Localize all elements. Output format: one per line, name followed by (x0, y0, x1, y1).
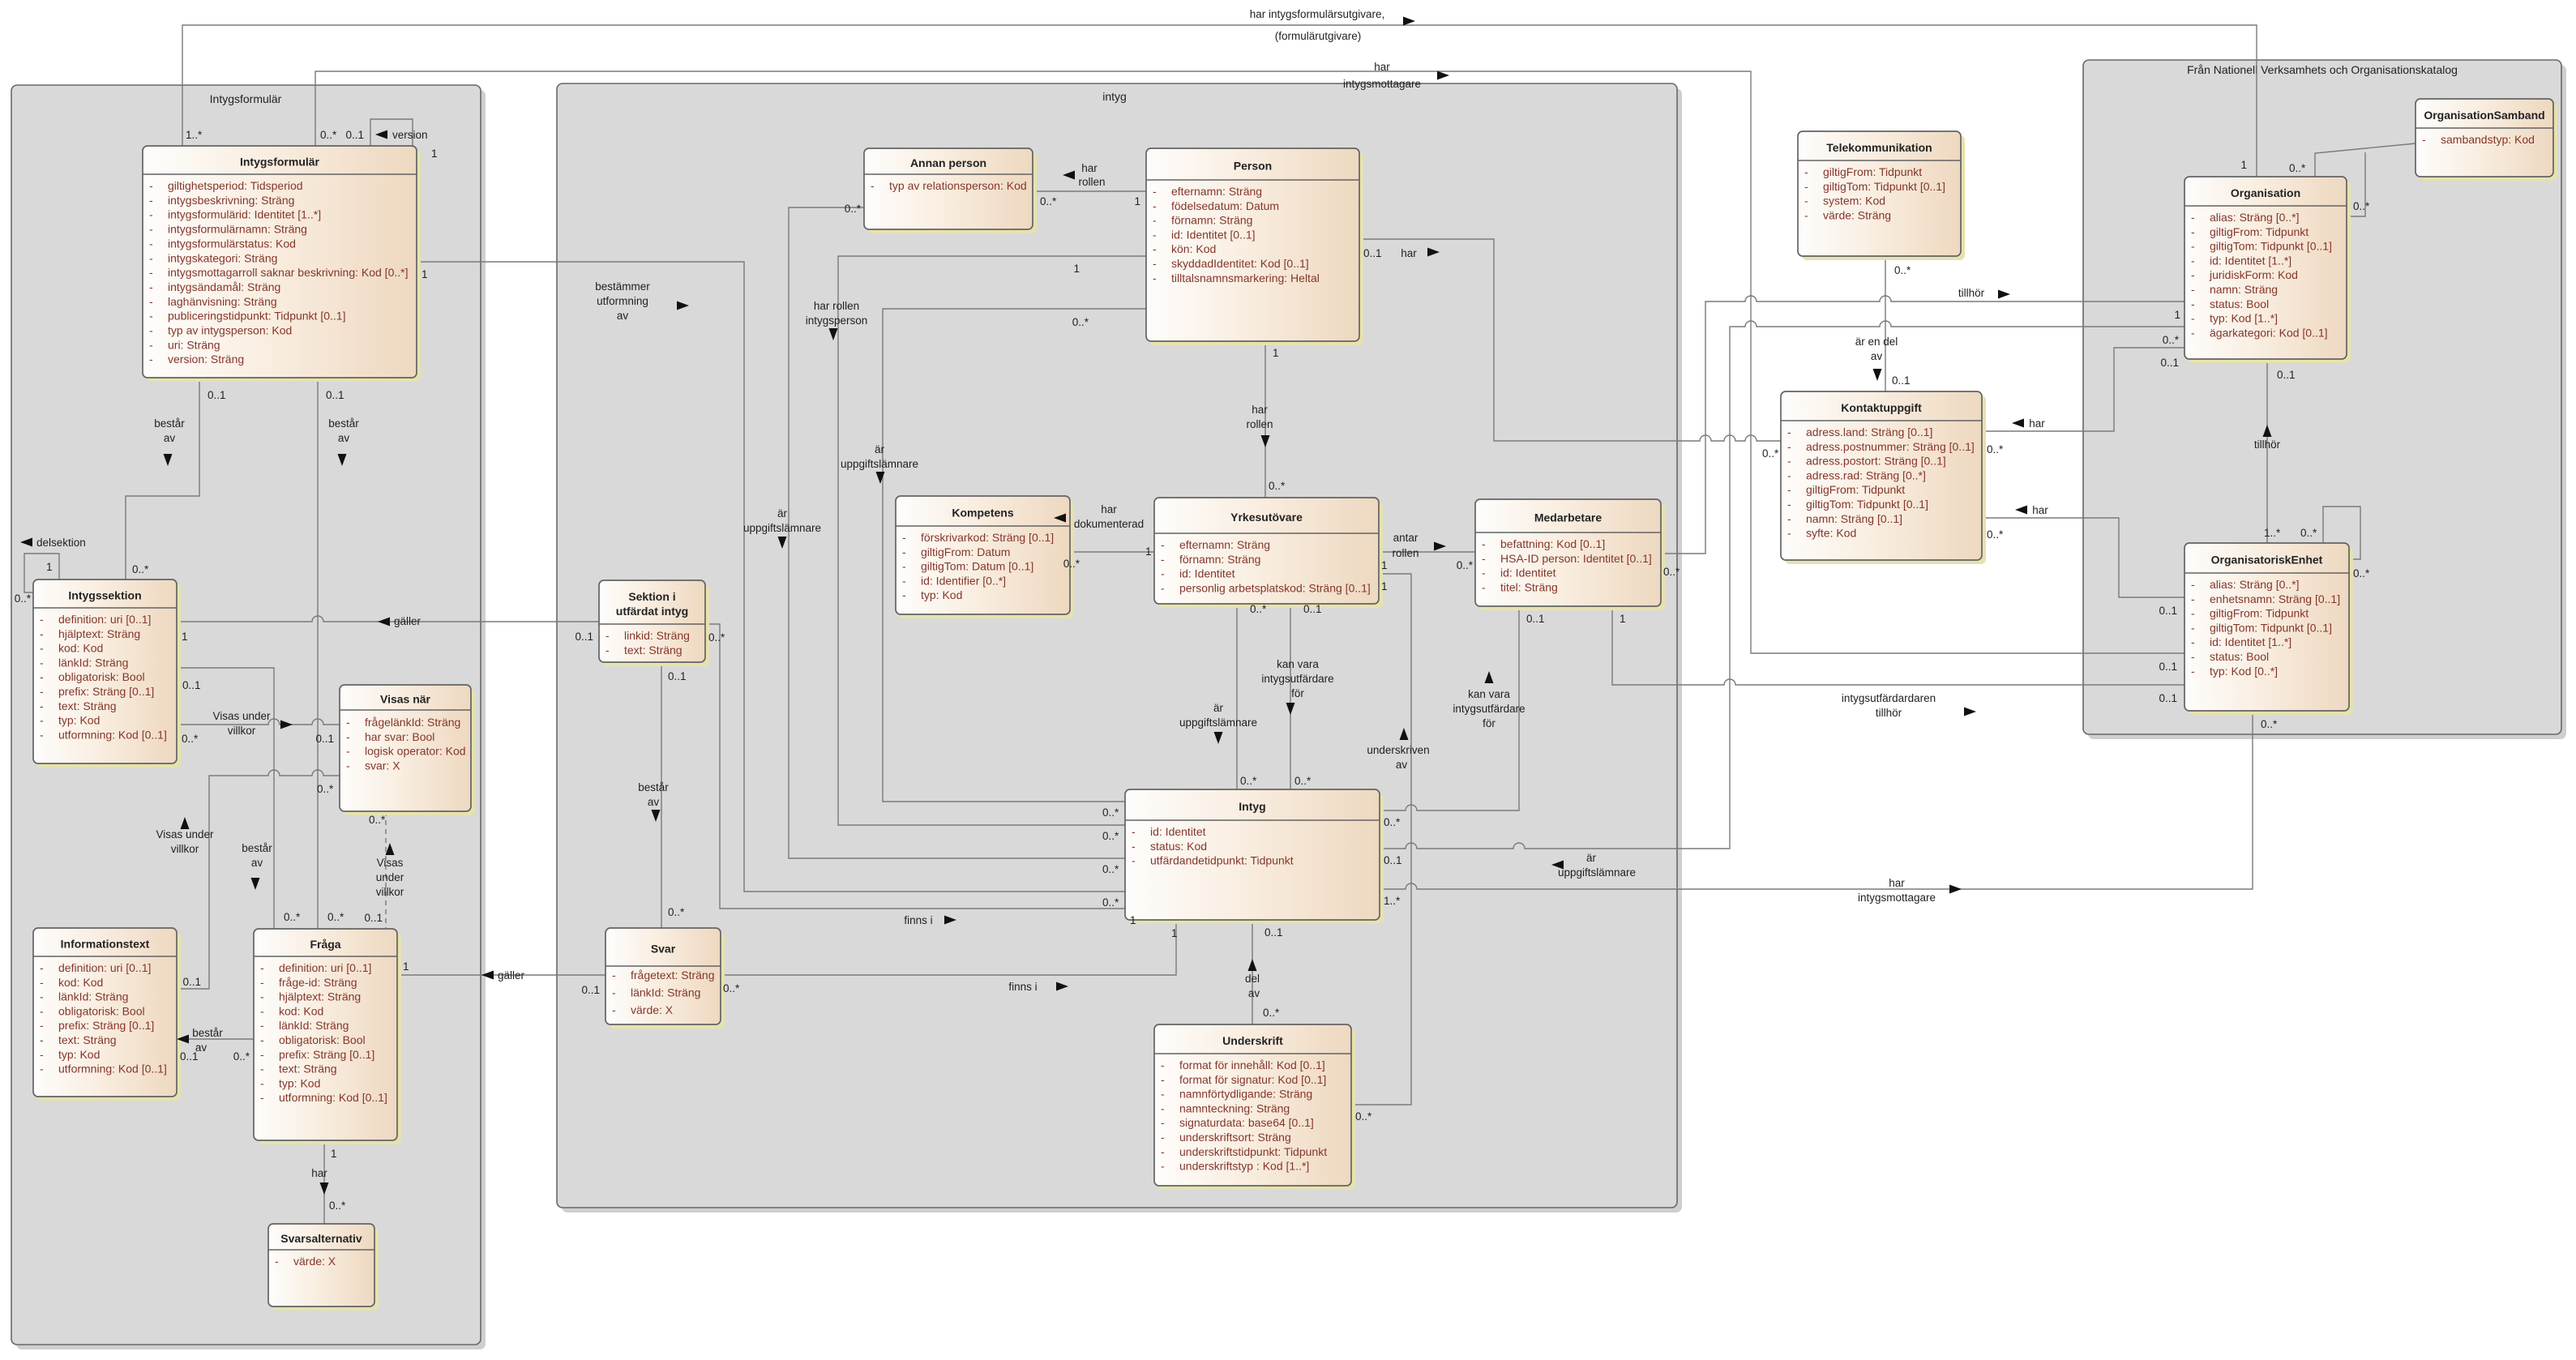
class Organisation (2184, 177, 2351, 363)
svg-text:-: - (1161, 1160, 1165, 1173)
svg-text:giltigFrom: Tidpunkt: giltigFrom: Tidpunkt (2210, 225, 2309, 238)
svg-text:Intygsformulär: Intygsformulär (240, 156, 320, 169)
svg-text:1: 1 (1273, 347, 1279, 359)
svg-text:1: 1 (1134, 195, 1140, 207)
svg-text:-: - (605, 629, 610, 642)
svg-text:underskriven: underskriven (1367, 744, 1429, 756)
multiplicity 1 antar (1381, 559, 1388, 571)
svg-text:typ: Kod [1..*]: typ: Kod [1..*] (2210, 312, 2278, 325)
arrowhead har rollen 1 (1063, 171, 1075, 180)
svg-text:-: - (1161, 1058, 1165, 1071)
wire bestar av (Intygssektion-Fraga) (177, 668, 274, 932)
wire ar uppgiftslamnare (Person-Intyg) (883, 309, 1146, 802)
svg-text:alias: Sträng [0..*]: alias: Sträng [0..*] (2210, 211, 2300, 224)
svg-text:0..1: 0..1 (2159, 605, 2177, 617)
svg-text:0..*: 0..* (1040, 195, 1057, 207)
svg-text:-: - (346, 730, 350, 743)
wire self-association OrganisatoriskEnhet (2323, 507, 2360, 559)
svg-text:0..*: 0..* (132, 563, 149, 575)
svg-text:-: - (149, 280, 153, 293)
svg-text:uppgiftslämnare: uppgiftslämnare (1179, 716, 1257, 729)
svg-text:intygsmottagare: intygsmottagare (1858, 892, 1936, 904)
svg-text:namn: Sträng [0..1]: namn: Sträng [0..1] (1806, 512, 1902, 525)
svg-text:-: - (1787, 468, 1791, 481)
arrowhead tillhor 2 (2263, 425, 2272, 437)
wire galler (Fraga-Svar) (397, 974, 605, 976)
svg-text:uppgiftslämnare: uppgiftslämnare (841, 458, 918, 470)
svg-text:id: Identitet [0..1]: id: Identitet [0..1] (1171, 228, 1256, 241)
svg-text:1: 1 (1381, 580, 1388, 592)
svg-text:OrganisatoriskEnhet: OrganisatoriskEnhet (2211, 554, 2323, 567)
svg-text:text: Sträng: text: Sträng (58, 1033, 117, 1046)
multiplicity 0..1 toe top (2277, 369, 2296, 381)
svg-text:0..*: 0..* (1240, 775, 1257, 787)
svg-text:del: del (1245, 973, 1260, 985)
svg-text:frågelänkId: Sträng: frågelänkId: Sträng (365, 716, 460, 729)
svg-text:-: - (346, 759, 350, 772)
svg-text:namnförtydligande: Sträng: namnförtydligande: Sträng (1179, 1088, 1312, 1101)
label bestar av 2 (328, 417, 359, 444)
class Visas nar (340, 685, 475, 815)
multiplicity 0..1 Intygssektion end (182, 679, 201, 691)
svg-text:hjälptext: Sträng: hjälptext: Sträng (279, 990, 361, 1003)
svg-text:-: - (40, 670, 44, 683)
svg-text:Intygsformulär: Intygsformulär (210, 92, 282, 105)
svg-text:0..1: 0..1 (1526, 613, 1545, 625)
svg-text:intyg: intyg (1102, 90, 1127, 103)
arrowhead visas under villkor 3 (386, 843, 395, 855)
svg-text:0..*: 0..* (845, 203, 862, 215)
svg-text:id: Identitet: id: Identitet (1179, 567, 1235, 580)
svg-text:-: - (40, 961, 44, 974)
multiplicity 0..1 galler2 (581, 984, 600, 996)
svg-text:obligatorisk: Bool: obligatorisk: Bool (279, 1033, 366, 1046)
svg-text:0..*: 0..* (1355, 1110, 1372, 1123)
svg-text:-: - (260, 1048, 264, 1061)
multiplicity 0..1 kviy top (1303, 603, 1322, 615)
svg-text:0..1: 0..1 (2160, 357, 2179, 369)
svg-text:kod: Kod: kod: Kod (58, 642, 103, 655)
svg-text:-: - (1153, 228, 1157, 241)
arrowhead bestar av 2 (338, 454, 347, 466)
svg-text:id: Identitet [1..*]: id: Identitet [1..*] (2210, 635, 2291, 648)
label ar en del av (1855, 336, 1898, 362)
svg-text:-: - (149, 266, 153, 279)
svg-text:intygsmottagare: intygsmottagare (1343, 78, 1421, 90)
multiplicity 0..* best Intyg end (1102, 896, 1119, 909)
multiplicity 1 fi2 Intyg end (1171, 927, 1178, 939)
svg-text:-: - (902, 531, 906, 544)
arrowhead har oe (2015, 506, 2027, 515)
class Svarsalternativ (268, 1224, 379, 1311)
wire Visas under villkor (Visas nar-Fraga) dashed (385, 811, 387, 932)
svg-text:-: - (2191, 621, 2195, 634)
svg-text:0..1: 0..1 (364, 912, 383, 924)
multiplicity 0..* aup Person end (1072, 316, 1089, 328)
multiplicity 0..* Fraga end (284, 911, 301, 923)
svg-text:-: - (1787, 426, 1791, 438)
svg-text:-: - (2191, 635, 2195, 648)
wire har intygsmottagare (Intygsformular-OrganisatoriskEnhet) (315, 71, 2184, 653)
svg-text:0..*: 0..* (2300, 527, 2317, 539)
svg-text:-: - (871, 179, 875, 192)
svg-text:0..*: 0..* (1263, 1007, 1280, 1019)
multiplicity 0..* bestar av1 bottom (132, 563, 149, 575)
svg-text:0..*: 0..* (1987, 443, 2004, 455)
svg-text:-: - (260, 1063, 264, 1076)
svg-text:-: - (260, 961, 264, 974)
svg-text:-: - (1153, 199, 1157, 212)
multiplicity 0..1 vuv1 (315, 733, 334, 745)
svg-text:text: Sträng: text: Sträng (58, 699, 117, 712)
wire finns i (Svar-Intyg) (721, 920, 1176, 975)
svg-text:ägarkategori: Kod [0..1]: ägarkategori: Kod [0..1] (2210, 326, 2328, 339)
multiplicity 0..* Annan person end (1040, 195, 1057, 207)
arrowhead visas under villkor 2 (181, 817, 190, 829)
svg-text:system: Kod: system: Kod (1823, 195, 1885, 207)
svg-text:har: har (1889, 877, 1905, 889)
svg-text:kod: Kod: kod: Kod (58, 976, 103, 989)
svg-text:gäller: gäller (498, 969, 525, 982)
label har rollen intygsperson (806, 300, 868, 327)
multiplicity 0..1 iut OE end (2159, 692, 2177, 704)
svg-text:0..*: 0..* (182, 733, 199, 745)
svg-text:-: - (40, 1048, 44, 1061)
arrowhead galler 1 (378, 618, 390, 627)
multiplicity 0..* hrip Intyg end (1102, 830, 1119, 842)
svg-text:namn: Sträng: namn: Sträng (2210, 283, 2278, 296)
svg-text:tillhör: tillhör (1876, 707, 1902, 719)
arrowhead underskriven av (1400, 728, 1409, 740)
svg-text:-: - (260, 1033, 264, 1046)
svg-text:Fråga: Fråga (310, 938, 340, 951)
arrowhead ar uppgiftslamnare annan (778, 537, 787, 549)
arrowhead tillhor 1 (1998, 290, 2010, 299)
class Yrkesutovare (1154, 498, 1383, 608)
svg-text:namnteckning: Sträng: namnteckning: Sträng (1179, 1101, 1290, 1114)
svg-text:adress.postort: Sträng [0..1]: adress.postort: Sträng [0..1] (1806, 455, 1946, 468)
svg-text:efternamn: Sträng: efternamn: Sträng (1179, 538, 1270, 551)
label har intygsformularsutgivare (1250, 8, 1385, 42)
svg-text:gäller: gäller (394, 615, 421, 627)
svg-text:-: - (40, 656, 44, 669)
multiplicity 0..1 auo Intyg end (1384, 854, 1402, 866)
svg-text:-: - (1153, 272, 1157, 284)
svg-text:-: - (2191, 607, 2195, 620)
svg-text:-: - (1787, 440, 1791, 453)
label visas under villkor 3 (376, 857, 404, 898)
svg-text:intygsbeskrivning: Sträng: intygsbeskrivning: Sträng (168, 194, 294, 207)
svg-text:1..*: 1..* (1384, 895, 1401, 907)
multiplicity 1 hd (1145, 545, 1152, 558)
multiplicity 0..* oes1 (2300, 527, 2317, 539)
package Intygsformular (11, 85, 486, 1349)
svg-text:0..1: 0..1 (182, 679, 201, 691)
svg-text:0..*: 0..* (327, 911, 344, 923)
svg-text:1: 1 (1171, 927, 1178, 939)
svg-text:0..*: 0..* (1072, 316, 1089, 328)
wire del av (Intyg-Underskrift) (1252, 920, 1253, 1024)
svg-text:1: 1 (403, 960, 409, 973)
arrowhead har svarsalternativ (320, 1183, 329, 1195)
svg-text:förnamn: Sträng: förnamn: Sträng (1171, 214, 1252, 227)
svg-text:Intyg: Intyg (1239, 800, 1265, 813)
wire association Organisation-OrganisationSamband 1 (2315, 143, 2416, 177)
arrowhead har dokumenterad (1054, 514, 1066, 523)
svg-text:-: - (1161, 1145, 1165, 1158)
svg-text:0..1: 0..1 (326, 389, 344, 401)
svg-text:har: har (2029, 417, 2045, 430)
label bestar av 4 (192, 1027, 223, 1054)
svg-text:adress.postnummer: Sträng [0..: adress.postnummer: Sträng [0..1] (1806, 440, 1975, 453)
multiplicity 0..1 ss top (668, 670, 687, 682)
svg-text:1: 1 (331, 1148, 337, 1160)
svg-text:-: - (1132, 854, 1136, 867)
svg-text:-: - (1153, 242, 1157, 255)
multiplicity 1 hr2 (1273, 347, 1279, 359)
svg-text:tillhör: tillhör (1958, 287, 1985, 299)
label underskriven av (1367, 744, 1429, 771)
svg-text:typ av intygsperson: Kod: typ av intygsperson: Kod (168, 324, 292, 337)
svg-text:Organisation: Organisation (2231, 186, 2300, 199)
label version (392, 129, 428, 141)
svg-text:1: 1 (1073, 263, 1080, 275)
svg-text:-: - (346, 745, 350, 758)
wire Visas under villkor (Intygssektion-Visas nar) (177, 719, 340, 725)
arrowhead del av (1248, 959, 1257, 971)
svg-text:hjälptext: Sträng: hjälptext: Sträng (58, 627, 140, 640)
wire bestammer utformning av (Intygsformular-Intyg) (416, 262, 1125, 892)
svg-text:tillhör: tillhör (2254, 438, 2281, 451)
svg-text:1: 1 (1130, 914, 1136, 926)
svg-text:-: - (1132, 825, 1136, 838)
multiplicity 1 delsektion (46, 561, 53, 573)
svg-text:-: - (1787, 483, 1791, 496)
svg-text:1: 1 (1145, 545, 1152, 558)
svg-text:-: - (612, 986, 616, 999)
svg-text:födelsedatum: Datum: födelsedatum: Datum (1171, 199, 1279, 212)
wire har intygsmottagare (Intyg-OrganisatoriskEnhet) (1380, 711, 2253, 889)
svg-text:giltigFrom: Tidpunkt: giltigFrom: Tidpunkt (2210, 607, 2309, 620)
multiplicity 0..1 vuv3 bottom (364, 912, 383, 924)
arrowhead har intygsformularsutgivare (1403, 17, 1415, 26)
svg-text:av: av (1248, 987, 1260, 999)
svg-text:syfte: Kod: syfte: Kod (1806, 527, 1856, 540)
label galler 2 (498, 969, 525, 982)
label bestammer utformning av (595, 280, 650, 322)
svg-text:1..*: 1..* (186, 129, 203, 141)
wire har (Fraga-Svarsalternativ) (323, 1140, 325, 1224)
svg-text:0..*: 0..* (2261, 718, 2278, 730)
svg-text:intygsändamål: Sträng: intygsändamål: Sträng (168, 280, 280, 293)
svg-text:-: - (1482, 580, 1486, 593)
svg-text:uppgiftslämnare: uppgiftslämnare (743, 522, 821, 534)
svg-text:0..*: 0..* (2353, 567, 2370, 579)
multiplicity 0..1 version (345, 129, 364, 141)
svg-text:HSA-ID person: Identitet [0..1: HSA-ID person: Identitet [0..1] (1500, 552, 1652, 565)
svg-text:0..*: 0..* (2289, 162, 2306, 174)
label har svarsalternativ (311, 1167, 327, 1179)
svg-text:0..1: 0..1 (2159, 692, 2177, 704)
svg-text:intygsformulärnamn: Sträng: intygsformulärnamn: Sträng (168, 223, 307, 236)
svg-text:0..*: 0..* (1663, 566, 1680, 578)
svg-text:-: - (2191, 211, 2195, 224)
svg-text:underskriftsort: Sträng: underskriftsort: Sträng (1179, 1131, 1291, 1144)
svg-text:0..1: 0..1 (668, 670, 687, 682)
svg-text:fråge-id: Sträng: fråge-id: Sträng (279, 976, 357, 989)
svg-text:-: - (1161, 1073, 1165, 1086)
svg-text:intygsutfärdare: intygsutfärdare (1453, 703, 1525, 715)
wire har intygsformularsutgivare (Intygsformular-Organisation) (182, 25, 2257, 177)
arrowhead antar rollen (1434, 542, 1446, 551)
class Medarbetare (1475, 499, 1665, 610)
wire ar uppgiftslamnare (Yrkesutovare-Intyg) (1236, 604, 1238, 789)
svg-text:utfärdandetidpunkt: Tidpunkt: utfärdandetidpunkt: Tidpunkt (1150, 854, 1294, 867)
wire galler (Intygssektion-Sektion i utfardat intyg) (177, 616, 599, 622)
label har org (2029, 417, 2045, 430)
svg-text:prefix: Sträng [0..1]: prefix: Sträng [0..1] (58, 685, 154, 698)
arrowhead version (375, 130, 387, 139)
svg-text:Kompetens: Kompetens (952, 507, 1013, 520)
multiplicity 0..* uav (1355, 1110, 1372, 1123)
label har intygsmottagare 2 (1858, 877, 1936, 904)
svg-text:-: - (260, 976, 264, 989)
label har rollen 1 (1078, 162, 1105, 188)
svg-text:0..1: 0..1 (182, 976, 201, 988)
label ar uppgiftslamnare yrk (1179, 702, 1257, 729)
wire har rollen intygsperson (Person-Intyg) (838, 256, 1146, 825)
class Telekommunikation (1798, 131, 1965, 260)
multiplicity 0..* os2 (2353, 200, 2370, 212)
svg-text:text: Sträng: text: Sträng (279, 1063, 337, 1076)
multiplicity 0..* fi1 (708, 631, 725, 644)
class OrganisatoriskEnhet (2184, 543, 2353, 715)
svg-text:typ: Kod: typ: Kod (58, 1048, 100, 1061)
svg-text:juridiskForm: Kod: juridiskForm: Kod (2209, 268, 2298, 281)
svg-text:-: - (40, 1063, 44, 1076)
svg-text:-: - (40, 1004, 44, 1017)
svg-text:linkid: Sträng: linkid: Sträng (624, 629, 690, 642)
arrowhead kan vara yrk (1286, 703, 1295, 715)
arrowhead kan vara medarb (1485, 671, 1494, 683)
wire version self-association Intygsformular (370, 119, 413, 146)
wire bestar av (Fraga-Informationstext) (177, 1038, 254, 1040)
multiplicity 1 iut (1620, 613, 1626, 625)
multiplicity 1 tillhor Org end (2174, 309, 2180, 321)
svg-text:-: - (612, 969, 616, 982)
svg-text:av: av (1871, 350, 1883, 362)
svg-text:adress.rad: Sträng [0..*]: adress.rad: Sträng [0..*] (1806, 468, 1926, 481)
multiplicity 0..1 har org O end (2160, 357, 2179, 369)
svg-text:kod: Kod: kod: Kod (279, 1004, 323, 1017)
label bestar av 3 (242, 842, 272, 869)
svg-text:-: - (1804, 180, 1808, 193)
wire ar en del av (Telekommunikation-Kontaktuppgift) (1885, 256, 1886, 391)
multiplicity 1..* him Intyg end (1384, 895, 1401, 907)
wire har rollen (Annan person-Person) (1033, 190, 1146, 192)
svg-text:0..1: 0..1 (208, 389, 226, 401)
svg-text:-: - (2191, 254, 2195, 267)
multiplicity 0..1 aeda bottom (1892, 374, 1911, 387)
wire tillhor (OrganisatoriskEnhet-Organisation) (2266, 359, 2268, 543)
multiplicity 0..* svarsalt (329, 1200, 346, 1212)
svg-text:-: - (2191, 665, 2195, 678)
multiplicity 0..* Intygsformular end line B (320, 129, 337, 141)
label visas under villkor 1 (212, 710, 271, 737)
svg-text:antar: antar (1393, 532, 1419, 544)
svg-text:har: har (1252, 404, 1268, 416)
svg-text:(formulärutgivare): (formulärutgivare) (1275, 30, 1362, 42)
label tillhor 2 (2254, 438, 2281, 451)
svg-text:0..1: 0..1 (315, 733, 334, 745)
svg-text:giltigTom: Tidpunkt [0..1]: giltigTom: Tidpunkt [0..1] (2210, 240, 2332, 253)
multiplicity 0..* har person K end (1762, 447, 1779, 460)
svg-text:delsektion: delsektion (36, 537, 86, 549)
svg-text:0..*: 0..* (1102, 806, 1119, 819)
class Fraga (254, 929, 401, 1144)
svg-text:har svar: Bool: har svar: Bool (365, 730, 434, 743)
svg-text:signaturdata: base64 [0..1]: signaturdata: base64 [0..1] (1179, 1116, 1314, 1129)
wire har (Person-Kontaktuppgift) (1359, 239, 1781, 441)
class Kompetens (896, 496, 1074, 618)
svg-text:skyddadIdentitet: Kod [0..1]: skyddadIdentitet: Kod [0..1] (1171, 257, 1309, 270)
svg-text:-: - (2191, 592, 2195, 605)
svg-text:-: - (902, 545, 906, 558)
svg-text:har intygsformulärsutgivare,: har intygsformulärsutgivare, (1250, 8, 1385, 20)
svg-text:giltighetsperiod: Tidsperiod: giltighetsperiod: Tidsperiod (168, 179, 303, 192)
multiplicity 0..* him OE end (2261, 718, 2278, 730)
svg-text:förskrivarkod: Sträng [0..1]: förskrivarkod: Sträng [0..1] (921, 531, 1054, 544)
svg-text:utformning: Kod [0..1]: utformning: Kod [0..1] (279, 1091, 387, 1104)
wire ar uppgiftslamnare (Annan person-Intyg) (789, 207, 1125, 858)
svg-text:alias: Sträng [0..*]: alias: Sträng [0..*] (2210, 578, 2300, 591)
arrowhead delsektion (20, 538, 32, 547)
svg-text:typ: Kod: typ: Kod (58, 714, 100, 727)
multiplicity 0..* delav bottom (1263, 1007, 1280, 1019)
svg-text:-: - (605, 644, 610, 656)
svg-text:0..*: 0..* (723, 982, 740, 994)
svg-text:version: version (392, 129, 428, 141)
class Underskrift (1154, 1024, 1355, 1190)
multiplicity 0..* har org K end (1987, 443, 2004, 455)
class Intygsformular (143, 146, 421, 382)
svg-text:obligatorisk: Bool: obligatorisk: Bool (58, 1004, 145, 1017)
arrowhead har org (2012, 419, 2024, 428)
arrowhead bestammer utformning av (677, 302, 689, 310)
svg-text:-: - (260, 1004, 264, 1017)
svg-text:Visas när: Visas när (380, 693, 431, 706)
svg-text:publiceringstidpunkt: Tidpunkt: publiceringstidpunkt: Tidpunkt [0..1] (168, 310, 345, 323)
svg-text:-: - (2191, 240, 2195, 253)
multiplicity 1 uav (1381, 580, 1388, 592)
multiplicity 0..1 bestar av2 top (326, 389, 344, 401)
arrowhead ar uppgiftslamnare org (1551, 861, 1564, 870)
svg-text:kan vara: kan vara (1468, 688, 1510, 700)
svg-text:består: består (154, 417, 185, 430)
svg-text:är: är (875, 443, 885, 455)
svg-text:-: - (1161, 581, 1165, 594)
svg-text:-: - (1153, 257, 1157, 270)
arrowhead finns i 1 (944, 916, 956, 925)
arrowhead har person (1427, 248, 1440, 257)
svg-text:1: 1 (1381, 559, 1388, 571)
svg-text:-: - (275, 1255, 279, 1268)
wire har (Organisation-Kontaktuppgift) (1982, 348, 2184, 431)
multiplicity 0..* aeda top (1894, 264, 1911, 276)
svg-text:-: - (1787, 498, 1791, 511)
svg-text:0..*: 0..* (284, 911, 301, 923)
svg-text:förnamn: Sträng: förnamn: Sträng (1179, 553, 1260, 566)
